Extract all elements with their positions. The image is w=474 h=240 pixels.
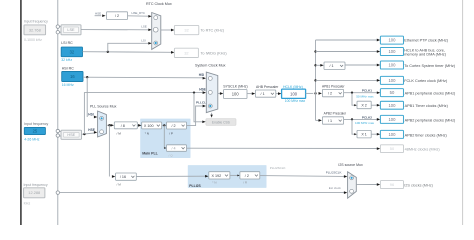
svg-text:HSE: HSE bbox=[67, 133, 75, 137]
wire to FCLK bbox=[314, 79, 316, 81]
svg-text:/ 2: / 2 bbox=[171, 124, 175, 128]
APB2 timer clocks box 100 bbox=[380, 130, 403, 138]
FCLK Cortex box 100 bbox=[380, 76, 403, 84]
HSE input frequency field 25 bbox=[24, 127, 45, 134]
wire LSI riser to RTC mux bbox=[108, 43, 148, 52]
PLL multiplier N X 100 bbox=[142, 122, 162, 129]
wire 48MHz from Q bbox=[187, 147, 378, 149]
PLL divider Q / 4 bbox=[167, 145, 187, 152]
wire HSI to system clock mux bbox=[83, 76, 203, 79]
wire Ext clock to I2S mux bbox=[59, 192, 344, 194]
AHB prescaler / 1 bbox=[255, 90, 275, 97]
svg-text:PLL Source Mux: PLL Source Mux bbox=[90, 105, 117, 109]
svg-text:* N: * N bbox=[212, 181, 216, 185]
junction PLLI2S feed bbox=[108, 124, 110, 126]
junction LSI riser bbox=[107, 51, 109, 53]
wire LSE to RTC mux bbox=[81, 29, 148, 31]
svg-text:100 MHz max: 100 MHz max bbox=[355, 121, 375, 125]
svg-text:100: 100 bbox=[388, 49, 396, 54]
svg-text:/ M: / M bbox=[117, 131, 122, 135]
wire to Cortex prescaler bbox=[314, 64, 316, 66]
junction HCLK rail bbox=[314, 92, 316, 94]
wire APB1 to PCLK1 box bbox=[344, 92, 377, 94]
wire CSS branch bbox=[194, 93, 202, 122]
APB1 timer clocks box 100 bbox=[380, 101, 403, 109]
wire N to P bbox=[162, 124, 167, 126]
svg-text:To Cortex System timer (MHz): To Cortex System timer (MHz) bbox=[404, 64, 456, 68]
svg-text:/ 16: / 16 bbox=[120, 175, 126, 179]
svg-text:FCLK Cortex clock (MHz): FCLK Cortex clock (MHz) bbox=[404, 79, 448, 83]
svg-text:16 MHz: 16 MHz bbox=[62, 83, 74, 87]
svg-text:KHz: KHz bbox=[24, 202, 31, 206]
PLL divider M / 8 bbox=[114, 122, 137, 129]
svg-text:/ 1: / 1 bbox=[261, 92, 265, 96]
svg-text:Input frequency: Input frequency bbox=[24, 183, 48, 187]
wire HCLK to rail bbox=[306, 92, 314, 94]
wire PLLCLK to system mux bbox=[187, 106, 203, 126]
svg-text:4-26 MHz: 4-26 MHz bbox=[24, 137, 39, 141]
svg-text:memory and DMA (MHz): memory and DMA (MHz) bbox=[404, 53, 447, 57]
svg-text:/ 2: / 2 bbox=[328, 92, 332, 96]
svg-text:PLLI2SCLK: PLLI2SCLK bbox=[326, 170, 342, 174]
svg-text:32.768: 32.768 bbox=[29, 27, 41, 32]
HCLK value box 100 bbox=[282, 89, 306, 98]
wire SYSCLK to AHB prescaler bbox=[247, 93, 252, 95]
svg-text:/ 4: / 4 bbox=[171, 146, 175, 150]
svg-text:/ P: / P bbox=[169, 131, 173, 135]
svg-text:/ Q: / Q bbox=[169, 154, 174, 158]
svg-text:APB1 peripheral clocks (MHz): APB1 peripheral clocks (MHz) bbox=[405, 92, 456, 96]
svg-text:X 192: X 192 bbox=[212, 174, 222, 178]
To IWDG output box bbox=[174, 48, 198, 57]
wire PLLI2S N to R bbox=[230, 174, 237, 176]
svg-text:PLLI2S: PLLI2S bbox=[189, 184, 201, 188]
svg-text:LSI RC: LSI RC bbox=[61, 41, 73, 45]
svg-text:HSE: HSE bbox=[199, 88, 206, 92]
svg-text:APB2 peripheral clocks (MHz): APB2 peripheral clocks (MHz) bbox=[405, 118, 456, 122]
svg-text:12.288: 12.288 bbox=[28, 190, 40, 195]
svg-text:100: 100 bbox=[388, 132, 396, 137]
svg-text:HCLK (MHz): HCLK (MHz) bbox=[283, 85, 303, 89]
svg-text:Input frequency: Input frequency bbox=[24, 122, 48, 126]
svg-text:I2S source Mux: I2S source Mux bbox=[338, 163, 363, 167]
LSI RC oscillator block 32 bbox=[61, 47, 82, 57]
svg-text:0-1000 kHz: 0-1000 kHz bbox=[24, 38, 42, 42]
svg-text:HSI: HSI bbox=[199, 73, 204, 77]
svg-text:HSE_RTC: HSE_RTC bbox=[132, 11, 145, 15]
wire X2 to box bbox=[371, 104, 377, 106]
I2S clocks box bbox=[380, 181, 403, 189]
LSE oscillator block bbox=[59, 26, 61, 28]
SYSCLK value box 100 bbox=[224, 90, 248, 99]
Enable CSS button bbox=[206, 119, 236, 126]
APB2 timer multiplier X 1 bbox=[357, 130, 371, 138]
svg-text:HSE: HSE bbox=[95, 11, 101, 15]
PLLI2S divider M / 16 bbox=[116, 173, 137, 180]
svg-text:X 100: X 100 bbox=[144, 124, 154, 128]
wire HSE riser to system clock mux bbox=[84, 93, 202, 135]
svg-text:AHB Prescaler: AHB Prescaler bbox=[256, 85, 279, 89]
svg-text:HSI RC: HSI RC bbox=[62, 66, 75, 70]
page frame right light divider bbox=[462, 0, 464, 225]
wire APB2 timer branch bbox=[352, 119, 354, 134]
svg-text:APB2 Prescaler: APB2 Prescaler bbox=[324, 111, 347, 115]
wire HSE_RTC to RTC mux bbox=[128, 15, 149, 17]
To RTC output box bbox=[174, 25, 198, 34]
Main PLL panel bbox=[140, 119, 190, 158]
svg-text:16: 16 bbox=[70, 74, 75, 79]
svg-text:* N: * N bbox=[145, 131, 149, 135]
svg-text:100: 100 bbox=[388, 63, 396, 68]
junction VCO to Q bbox=[163, 124, 165, 126]
48MHz clocks box bbox=[380, 145, 403, 153]
Ethernet PTP clock box 100 bbox=[380, 36, 403, 44]
Cortex systick prescaler / 1 bbox=[324, 62, 345, 70]
wire HSE to PLL source mux bbox=[82, 133, 95, 134]
svg-text:Enable CSS: Enable CSS bbox=[212, 120, 231, 124]
HCLK AHB box 100 bbox=[380, 48, 403, 56]
svg-text:96: 96 bbox=[390, 182, 394, 187]
APB1 peripheral clocks box 50 bbox=[380, 89, 403, 97]
svg-text:100: 100 bbox=[388, 117, 396, 122]
svg-text:/ 2: / 2 bbox=[245, 174, 249, 178]
wire RTC mux to RTC bbox=[161, 29, 172, 31]
wire Cortex prescaler to box bbox=[345, 64, 377, 66]
PLLI2S divider R / 2 bbox=[240, 172, 260, 179]
system mux CSS down arrow bbox=[211, 113, 213, 115]
APB2 prescaler / 1 bbox=[322, 117, 343, 124]
svg-text:System Clock Mux: System Clock Mux bbox=[195, 64, 226, 68]
svg-text:PLLI2SCLK: PLLI2SCLK bbox=[270, 166, 286, 170]
PLL divider P / 2 bbox=[167, 122, 187, 129]
HSI RC oscillator block 16 bbox=[62, 72, 83, 82]
svg-text:100 MHz max: 100 MHz max bbox=[285, 99, 306, 103]
PLLI2S multiplier N X 192 bbox=[209, 172, 230, 179]
svg-text:32 kHz: 32 kHz bbox=[61, 58, 72, 62]
svg-text:To IWDG (KHz): To IWDG (KHz) bbox=[201, 51, 228, 55]
RTC HSE divider / 2 bbox=[107, 12, 128, 20]
wire AHB to HCLK bbox=[276, 93, 279, 95]
LSE rail terminals bbox=[56, 25, 59, 28]
svg-text:X 1: X 1 bbox=[361, 133, 367, 137]
APB1 timer multiplier X 2 bbox=[357, 101, 371, 109]
PLL source mux bbox=[98, 111, 107, 137]
svg-text:/ 2: / 2 bbox=[115, 14, 119, 18]
svg-text:LSE: LSE bbox=[67, 28, 75, 32]
wire LSI to IWDG bbox=[83, 51, 172, 54]
svg-text:/ 8: / 8 bbox=[121, 124, 125, 128]
svg-text:Ext clock: Ext clock bbox=[329, 186, 342, 190]
svg-text:X 2: X 2 bbox=[361, 103, 367, 107]
HSE rail terminals bbox=[56, 129, 59, 132]
svg-text:100: 100 bbox=[388, 103, 396, 108]
wire PLL mux output bbox=[106, 124, 111, 126]
APB1 prescaler / 2 bbox=[322, 89, 343, 96]
svg-text:50 MHz max: 50 MHz max bbox=[356, 95, 374, 99]
svg-text:Input frequency: Input frequency bbox=[24, 20, 48, 24]
svg-text:LSE: LSE bbox=[141, 25, 147, 29]
wire PLLI2S M to N bbox=[136, 175, 205, 177]
svg-text:Ethernet PTP clock (MHz): Ethernet PTP clock (MHz) bbox=[404, 39, 449, 43]
I2S ext input frequency field 12.288 bbox=[24, 188, 45, 198]
svg-text:APB1 Prescaler: APB1 Prescaler bbox=[322, 84, 345, 88]
page frame left dark divider bbox=[20, 0, 22, 225]
system clock mux bbox=[206, 72, 218, 113]
wire HSI riser to PLL source mux bbox=[86, 77, 88, 117]
svg-text:/ M: / M bbox=[117, 182, 122, 186]
APB2 peripheral clocks box 100 bbox=[380, 115, 403, 123]
svg-text:100: 100 bbox=[290, 92, 298, 97]
svg-text:/ 1: / 1 bbox=[328, 119, 332, 123]
wire VCO riser to Q bbox=[164, 125, 166, 148]
junction APB2 timer branch bbox=[351, 118, 353, 120]
junction HSE riser bbox=[83, 133, 85, 135]
I2S external clock rail terminal bbox=[56, 191, 59, 194]
svg-text:To RTC (KHz): To RTC (KHz) bbox=[201, 28, 225, 32]
svg-text:32: 32 bbox=[184, 28, 188, 33]
svg-text:APB2 timer clocks (MHz): APB2 timer clocks (MHz) bbox=[405, 133, 448, 137]
wire to Ethernet PTP bbox=[316, 39, 378, 41]
wire rail to APB2 bbox=[316, 119, 319, 121]
svg-text:APB1 Timer clocks (MHz): APB1 Timer clocks (MHz) bbox=[405, 104, 449, 108]
svg-text:48MHz clocks (MHz): 48MHz clocks (MHz) bbox=[405, 148, 441, 152]
svg-text:100: 100 bbox=[232, 92, 240, 97]
HSE oscillator block bbox=[59, 131, 61, 133]
wire system mux to SYSCLK bbox=[218, 93, 221, 95]
junction CSS branch bbox=[193, 91, 195, 93]
wire M to N bbox=[137, 124, 139, 126]
svg-text:100: 100 bbox=[388, 78, 396, 83]
svg-text:HSE: HSE bbox=[88, 128, 95, 132]
svg-text:I2S clocks (MHz): I2S clocks (MHz) bbox=[404, 184, 433, 188]
svg-text:PCLK2: PCLK2 bbox=[362, 115, 372, 119]
wire APB2 to PCLK2 box bbox=[344, 118, 377, 120]
I2S source mux bbox=[348, 172, 357, 198]
svg-text:50: 50 bbox=[390, 90, 395, 95]
junction HSI riser bbox=[86, 76, 88, 78]
left input rail bbox=[57, 0, 59, 225]
wire PLL M riser to PLLI2S M bbox=[108, 125, 110, 176]
svg-text:100: 100 bbox=[388, 38, 396, 43]
junction APB1 timer branch bbox=[351, 92, 353, 94]
svg-text:25: 25 bbox=[33, 129, 38, 134]
svg-text:HSI: HSI bbox=[88, 112, 93, 116]
svg-text:/ 1: / 1 bbox=[329, 64, 333, 68]
svg-text:RTC Clock Mux: RTC Clock Mux bbox=[146, 2, 172, 6]
Cortex system timer box 100 bbox=[380, 61, 403, 69]
svg-text:PCLK1: PCLK1 bbox=[362, 89, 372, 93]
wire APB1 timer branch bbox=[352, 93, 354, 106]
To IWDG arrow bbox=[171, 51, 174, 54]
wire to HCLK AHB bbox=[314, 50, 316, 52]
wire I2S mux to I2S box bbox=[356, 183, 377, 185]
LSE input frequency field 32.768 bbox=[24, 25, 46, 35]
wire X1 to box bbox=[371, 133, 377, 135]
svg-text:32: 32 bbox=[70, 49, 75, 54]
svg-text:SYSCLK (MHz): SYSCLK (MHz) bbox=[223, 85, 247, 89]
svg-text:32: 32 bbox=[184, 50, 188, 55]
svg-text:Main PLL: Main PLL bbox=[142, 151, 158, 155]
HCLK distribution rail bbox=[315, 40, 317, 120]
PLLI2S panel bbox=[188, 165, 267, 188]
svg-text:LSI: LSI bbox=[141, 39, 146, 43]
wire PLLI2SCLK to I2S mux bbox=[260, 175, 344, 178]
